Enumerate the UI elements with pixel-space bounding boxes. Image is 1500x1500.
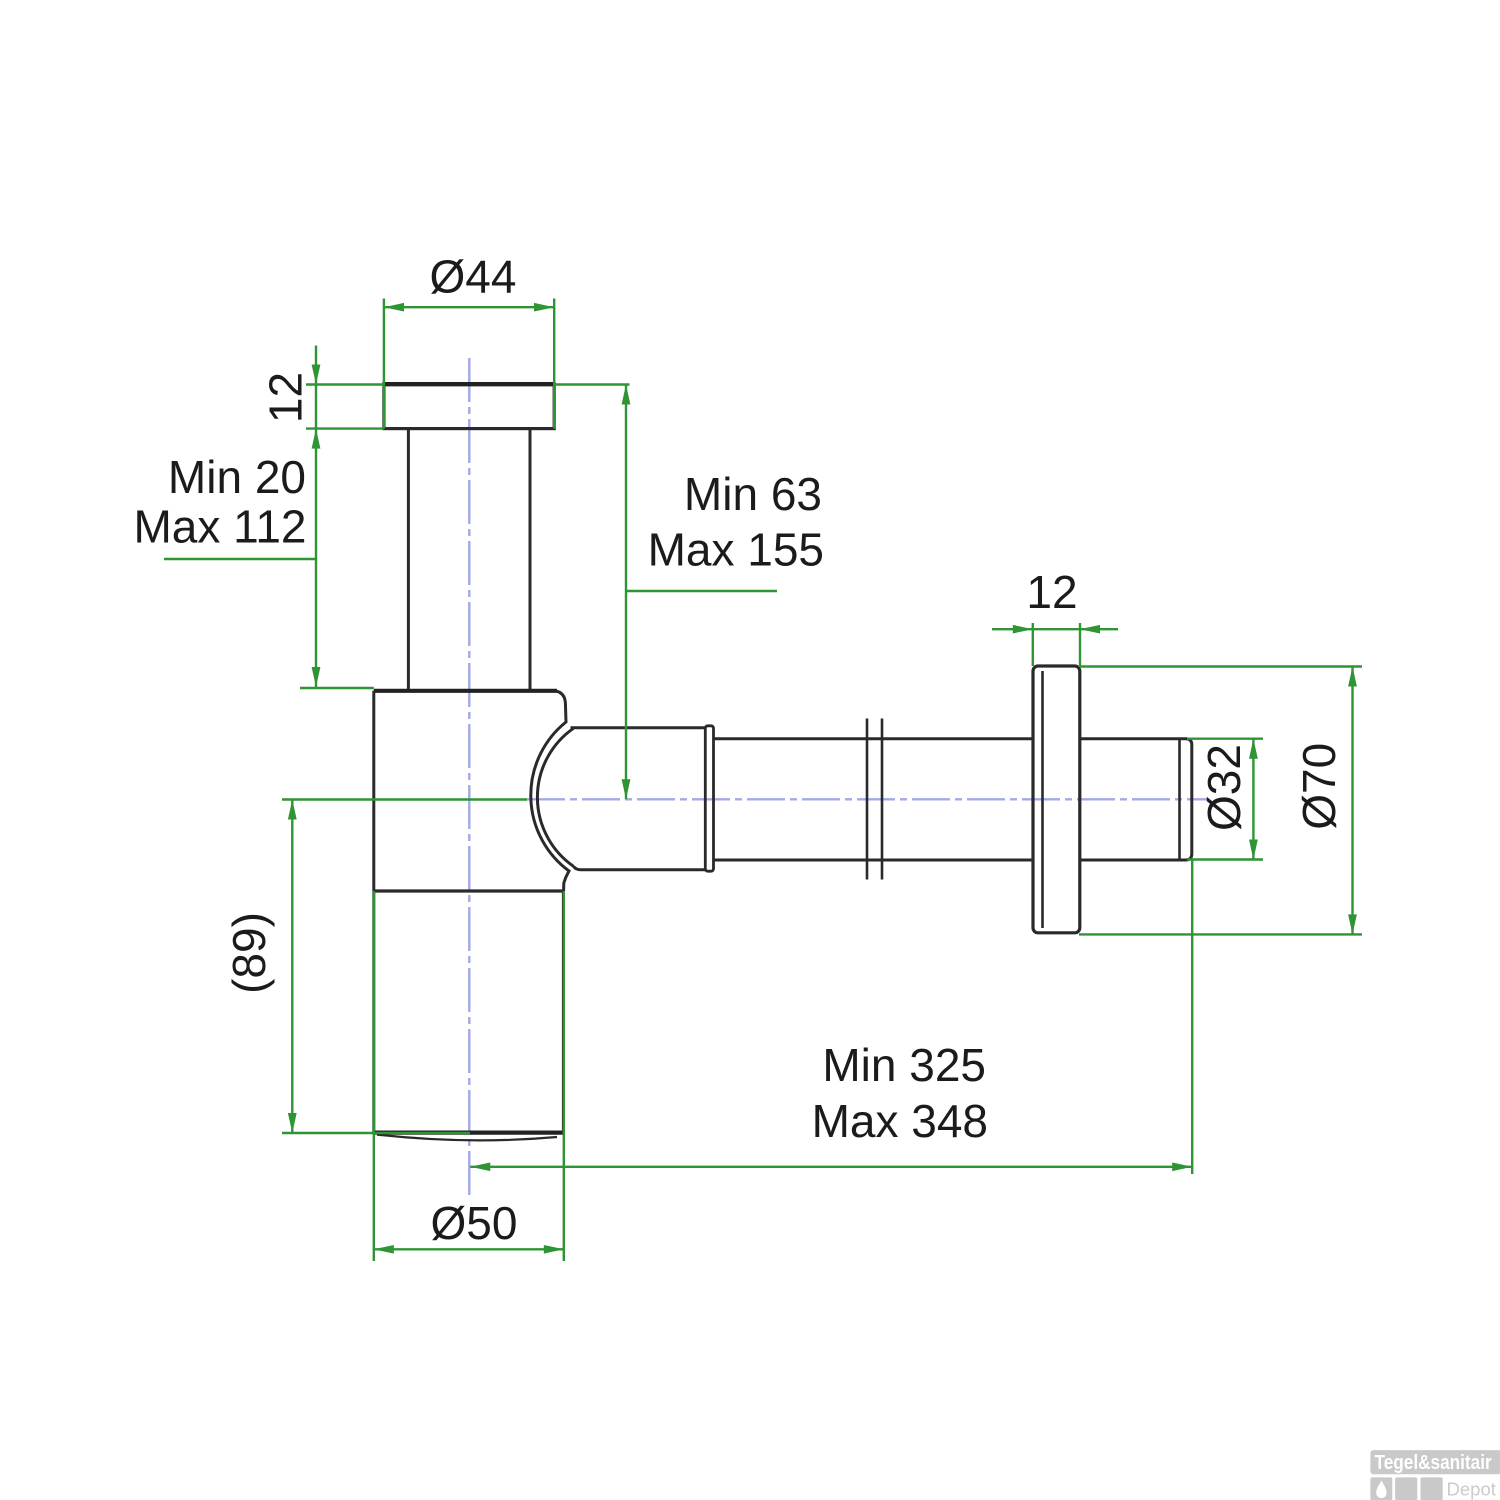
dim 12-left extension top <box>306 383 384 385</box>
arrow 89 top <box>288 800 297 820</box>
svg-text:Ø44: Ø44 <box>430 251 517 303</box>
dim 12-right line with tails <box>992 628 1118 630</box>
dim Min20Max112 leader <box>164 558 316 560</box>
arrow 89 bottom <box>288 1113 297 1133</box>
dim Min325Max348 line <box>470 1166 1192 1168</box>
arrow Min63 bottom (down to outlet axis) <box>622 779 631 799</box>
dim O44 extension right <box>553 299 555 429</box>
body top edge (thick) <box>374 689 557 693</box>
arrow O50 left <box>374 1245 394 1254</box>
pipe break line right <box>881 719 884 880</box>
arrow Min325 left <box>470 1163 490 1172</box>
dim O44 line <box>384 306 554 308</box>
elbow pipe bottom edge <box>574 866 706 870</box>
svg-text:Min 20: Min 20 <box>168 451 306 503</box>
end pipe chamfer line <box>1178 740 1181 859</box>
arrow O32 top <box>1249 739 1258 759</box>
body left edge <box>372 691 375 1133</box>
dim O32 line <box>1252 739 1254 860</box>
arrow Min20Max112 bottom (down to body top) <box>312 667 321 687</box>
arrow O32 bottom <box>1249 840 1258 860</box>
inlet pipe left side <box>407 429 410 690</box>
coupling ring <box>705 726 713 871</box>
dim O50 line <box>374 1248 564 1250</box>
outlet pipe top edge <box>714 737 1034 740</box>
watermark drop icon <box>1376 1481 1386 1499</box>
cup right edge <box>562 891 565 1133</box>
end pipe outline <box>1080 739 1192 860</box>
svg-text:Ø50: Ø50 <box>431 1197 518 1249</box>
dim O70 extension bottom <box>1079 933 1362 935</box>
elbow inner arc <box>537 728 573 866</box>
inlet flange top edge (thick) <box>384 382 554 386</box>
svg-text:Tegel&sanitair: Tegel&sanitair <box>1375 1451 1492 1474</box>
svg-text:Max 112: Max 112 <box>133 501 306 553</box>
wall flange inner edge line <box>1041 671 1044 928</box>
dim Min63Max155 line <box>625 385 627 800</box>
arrow 12-right left (outside, points right) <box>1013 625 1033 634</box>
dim 12-right extension right <box>1079 623 1081 666</box>
watermark banner <box>1370 1450 1500 1474</box>
centerline horizontal (outlet axis) <box>527 798 1208 800</box>
svg-text:Min 63: Min 63 <box>684 468 822 520</box>
arrow Min325 right <box>1172 1163 1192 1172</box>
dim 12-left extension bottom <box>306 427 384 429</box>
arrow O70 bottom <box>1348 914 1357 934</box>
wall flange <box>1033 666 1080 933</box>
inlet pipe right side <box>529 429 532 690</box>
green arrowheads <box>288 303 1357 1254</box>
arrow O70 top <box>1348 667 1357 687</box>
dim O70 line <box>1351 667 1353 935</box>
arrow O44 right <box>534 303 554 312</box>
dim O32 extension bottom <box>1187 858 1263 860</box>
inlet top flange <box>384 384 554 429</box>
elbow pipe top edge <box>571 726 706 729</box>
outlet pipe bottom edge <box>714 859 1034 862</box>
arrow Min63 top (up to flange top) <box>622 385 631 405</box>
watermark square 2 <box>1395 1477 1417 1500</box>
dim O44 extension left <box>383 299 385 429</box>
pipe break line left <box>866 719 869 880</box>
arrow O44 left <box>384 303 404 312</box>
dim 89 extension bottom <box>282 1132 470 1134</box>
svg-text:12: 12 <box>260 372 312 423</box>
dim O32 extension top <box>1187 738 1263 740</box>
cup bottom edge (thick) <box>374 1130 564 1134</box>
dim O50 extension right <box>563 891 565 1261</box>
arrow 12-left top (down to flange top) <box>312 365 321 385</box>
arrow 12-left bottom / Min20 top (up to flange bottom) <box>312 429 321 449</box>
svg-text:Max 155: Max 155 <box>648 524 824 576</box>
svg-text:Min 325: Min 325 <box>822 1039 986 1091</box>
arrow 12-right right (outside, points left) <box>1080 625 1100 634</box>
dim 89 line <box>291 800 293 1134</box>
dim 12-left / Min20Max112 line <box>315 346 317 688</box>
cup bottom curve <box>377 1135 557 1141</box>
centerline vertical (body axis) <box>468 358 470 1198</box>
svg-text:Max 348: Max 348 <box>812 1095 988 1147</box>
dim O50 extension left <box>373 891 375 1261</box>
dim Min63Max155 extension top <box>554 383 629 385</box>
dim Min325Max348 extension right <box>1191 860 1193 1174</box>
svg-text:Ø70: Ø70 <box>1293 743 1345 830</box>
body/cup joint line <box>374 889 564 892</box>
dim Min20Max112 extension bottom <box>300 687 374 689</box>
svg-text:Ø32: Ø32 <box>1198 744 1250 831</box>
arrow O50 right <box>544 1245 564 1254</box>
dim 12-right extension left <box>1032 623 1034 666</box>
dim 89 extension top <box>282 798 527 800</box>
dim Min63Max155 leader <box>626 590 777 592</box>
watermark square 1 <box>1370 1477 1392 1500</box>
dim O70 extension top <box>1080 665 1362 667</box>
body top-right corner and elbow outer arc <box>531 691 569 891</box>
watermark square 3 <box>1421 1477 1443 1500</box>
svg-text:12: 12 <box>1026 566 1077 618</box>
svg-text:(89): (89) <box>223 912 275 994</box>
svg-text:Depot: Depot <box>1447 1478 1496 1499</box>
